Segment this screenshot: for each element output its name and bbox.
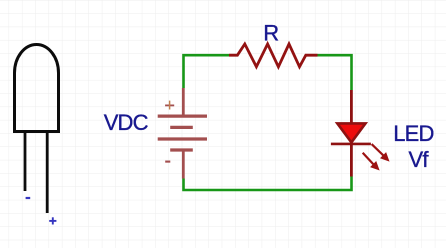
LED D1 cathode bar (331, 143, 371, 146)
svg-text:LED: LED (393, 121, 433, 146)
svg-text:VDC: VDC (104, 110, 149, 135)
polarity label - (cathode) (26, 197, 31, 199)
wire: top-right horizontal (green) (318, 55, 352, 90)
battery plate long (top) (158, 114, 207, 117)
battery plate long (158, 137, 207, 140)
resistor R1 zigzag (229, 44, 318, 67)
LED package anode leg (long, right) (46, 132, 49, 214)
battery plate short (bottom) (170, 148, 193, 151)
svg-text:Vf: Vf (409, 147, 430, 172)
battery + mark (165, 101, 174, 110)
battery - mark (165, 161, 170, 163)
LED emission arrow 1 (372, 144, 389, 161)
LED package drawing (physical LED, left) (15, 45, 59, 132)
battery VDC bottom pin (182, 150, 185, 179)
wire: top-left horizontal (green) (184, 55, 230, 88)
LED D1 triangle (337, 123, 365, 142)
battery VDC top pin (182, 88, 185, 116)
LED D1 anode pin (350, 90, 353, 123)
LED emission arrow 2 (363, 153, 379, 170)
LED package cathode leg (short, left) (24, 132, 27, 192)
polarity label + (anode) (49, 217, 56, 224)
battery plate short (170, 126, 193, 129)
svg-text:R: R (263, 21, 278, 46)
LED D1 cathode pin (350, 144, 353, 177)
wire: bottom horizontal (green) (184, 177, 352, 191)
